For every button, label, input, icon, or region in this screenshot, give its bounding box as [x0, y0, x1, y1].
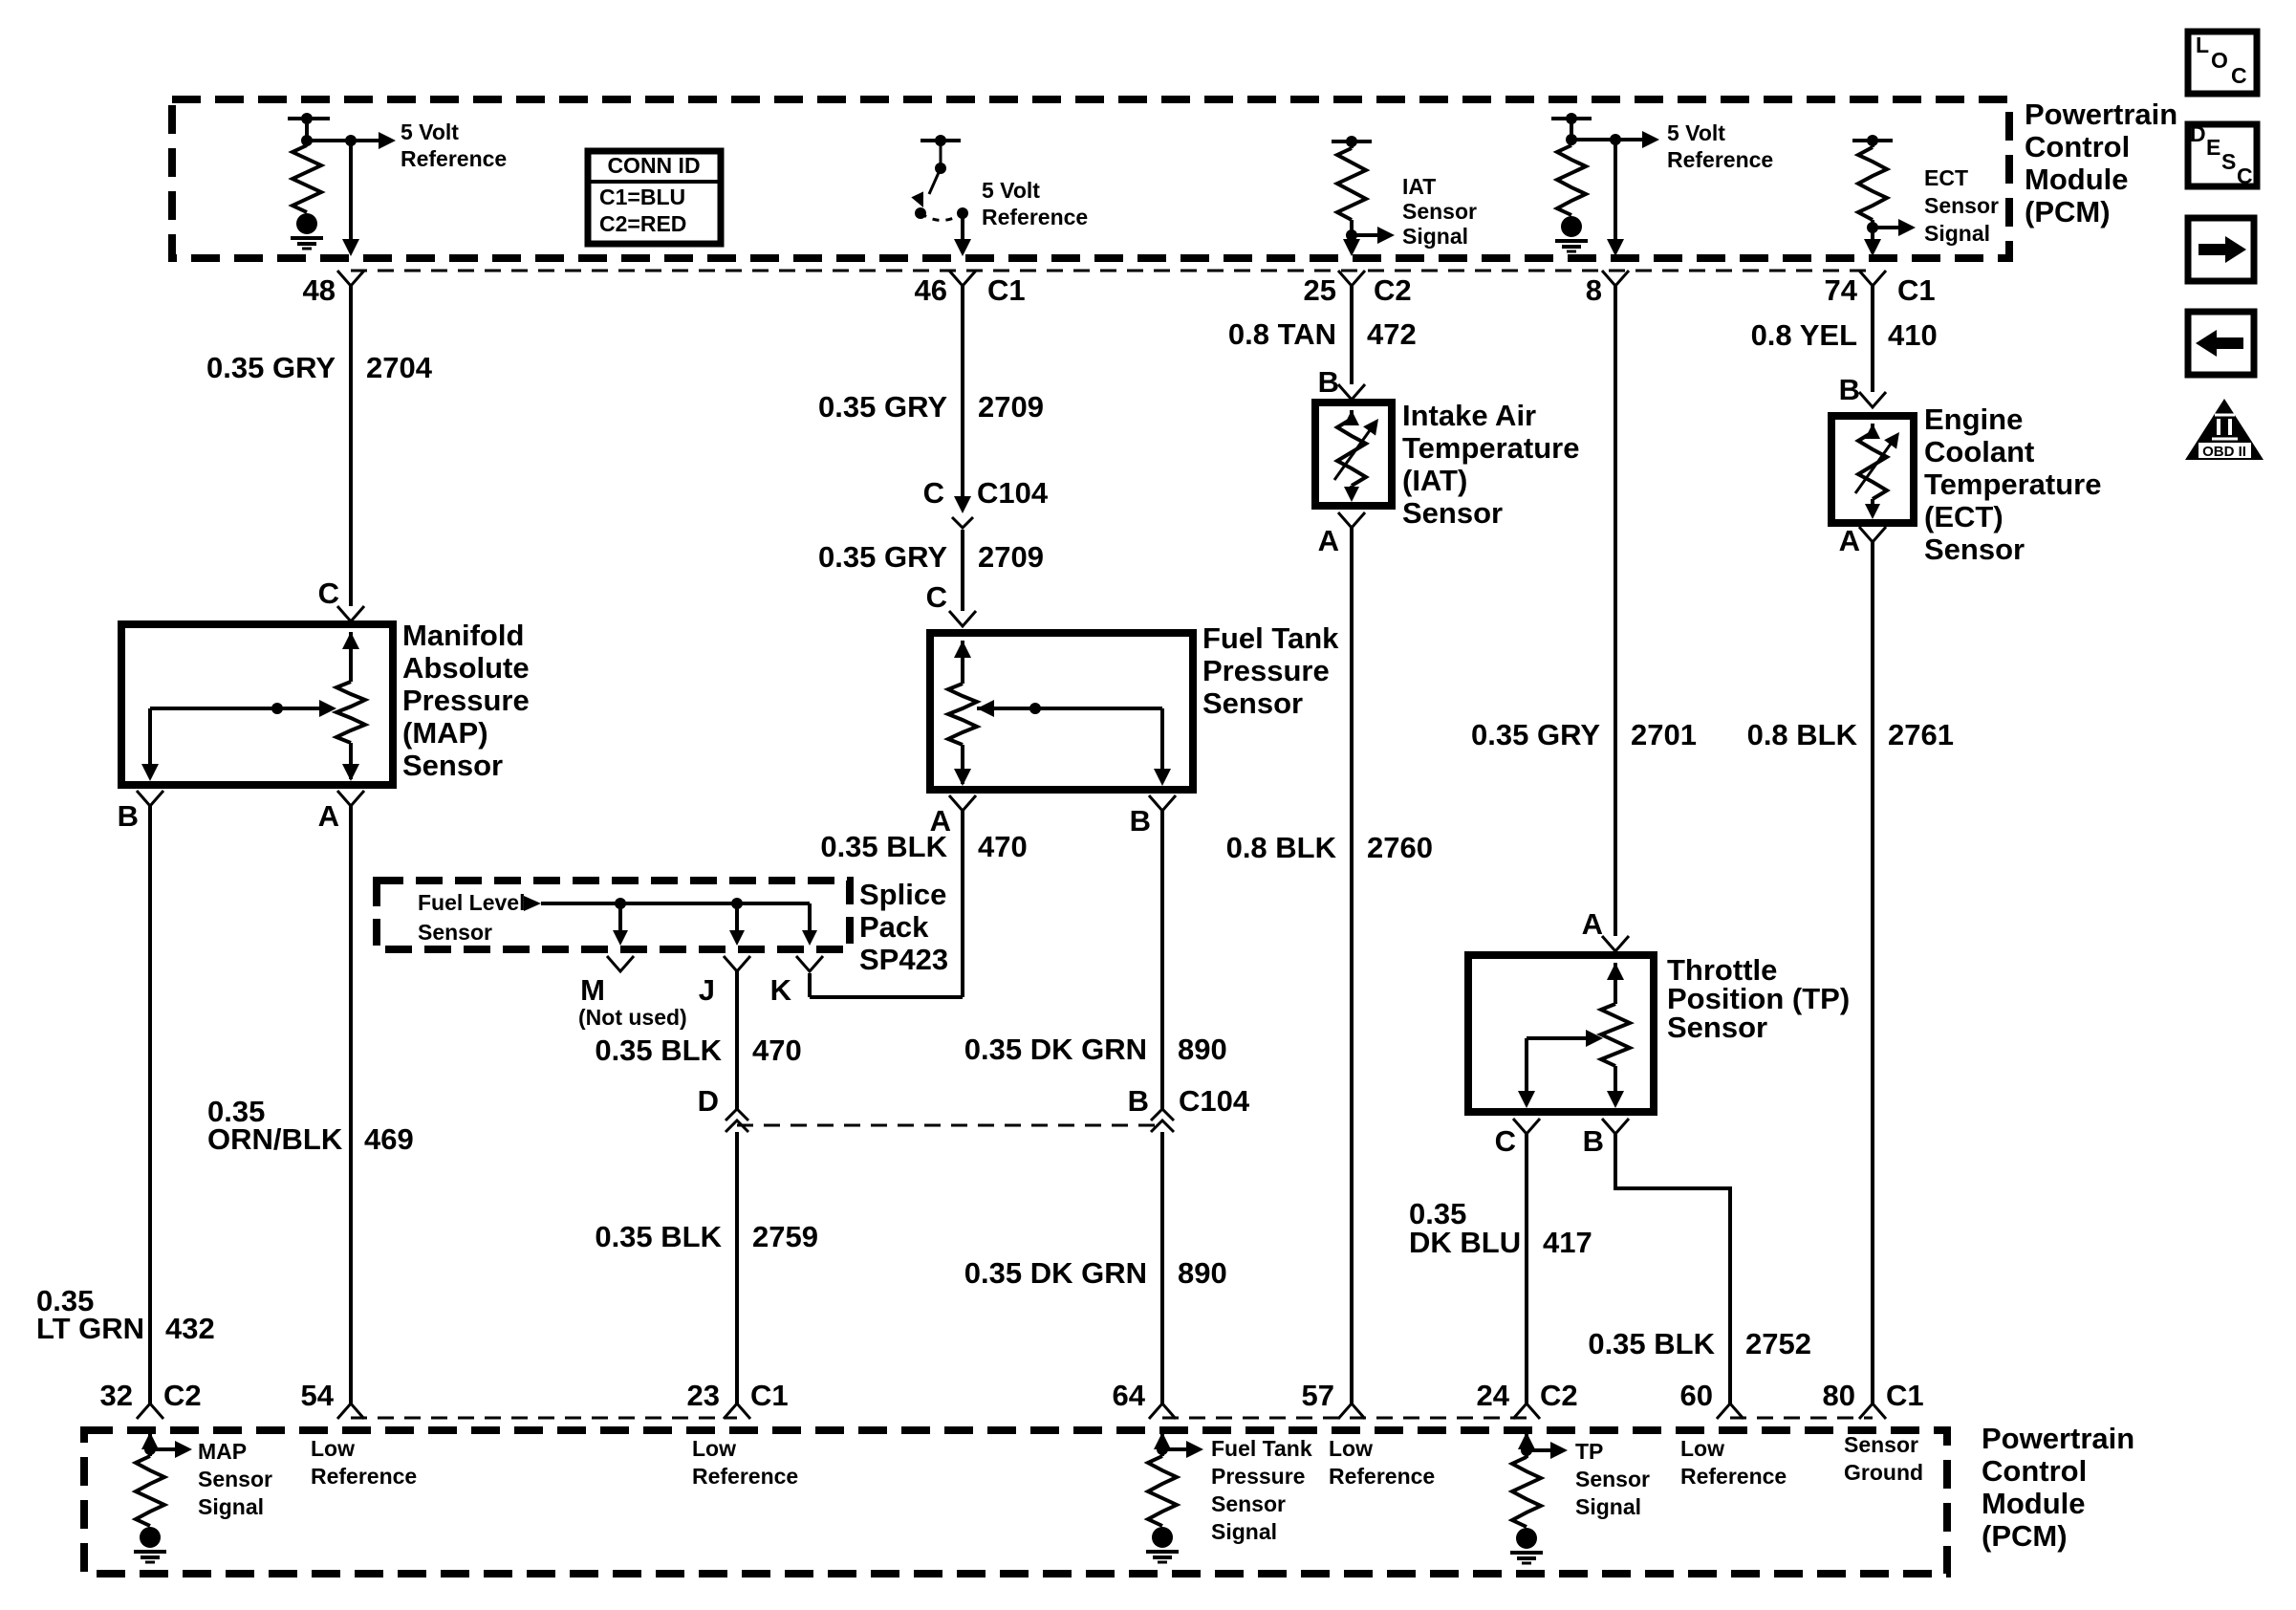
svg-text:(IAT): (IAT)	[1402, 464, 1467, 497]
svg-text:Sensor: Sensor	[1844, 1432, 1918, 1457]
svg-text:Intake Air: Intake Air	[1402, 399, 1536, 432]
svg-text:23: 23	[687, 1379, 720, 1412]
wire 8 drop inside PCM	[1607, 140, 1624, 256]
Fuel Level Sensor feed arrow	[524, 896, 810, 911]
svg-text:2752: 2752	[1745, 1327, 1811, 1360]
label Low Reference (57)	[1329, 1436, 1435, 1489]
svg-text:8: 8	[1586, 273, 1602, 307]
label 0.35 BLK 470 (J)	[595, 1033, 801, 1067]
connector C C104	[923, 476, 1049, 528]
wire ECT A to pin 80	[1871, 542, 1874, 1403]
svg-text:5 Volt: 5 Volt	[982, 178, 1040, 203]
svg-text:0.8 TAN: 0.8 TAN	[1228, 317, 1336, 351]
OBD II icon	[2185, 399, 2264, 460]
svg-text:E: E	[2206, 135, 2220, 160]
wire 48 to MAP sensor C	[349, 286, 353, 606]
svg-text:80: 80	[1823, 1379, 1855, 1412]
svg-text:Fuel Tank: Fuel Tank	[1202, 621, 1339, 655]
pin 60	[1680, 1379, 1744, 1419]
label 0.35 BLK 470 (FTP A)	[820, 830, 1027, 863]
svg-text:2761: 2761	[1888, 718, 1954, 751]
pin 80 C1	[1823, 1379, 1924, 1419]
pin 8	[1586, 271, 1629, 307]
label 0.8 TAN 472	[1228, 317, 1417, 351]
svg-text:5 Volt: 5 Volt	[401, 120, 459, 144]
svg-text:48: 48	[303, 273, 336, 307]
label 5 Volt Reference (MAP)	[401, 120, 507, 171]
svg-text:A: A	[1318, 524, 1339, 557]
svg-text:B: B	[1318, 365, 1339, 399]
pin B of MAP	[118, 791, 163, 833]
pin 32 C2	[100, 1379, 202, 1419]
svg-text:46: 46	[915, 273, 947, 307]
svg-text:MAP: MAP	[198, 1439, 247, 1464]
svg-text:Low: Low	[1329, 1436, 1373, 1461]
svg-text:A: A	[318, 799, 339, 833]
svg-text:Signal: Signal	[1211, 1519, 1277, 1544]
ECT sensor label	[1924, 402, 2102, 566]
label 0.35 GRY 2701	[1471, 718, 1697, 751]
label 5 Volt Reference (switch)	[982, 178, 1088, 229]
pin C of TP	[1495, 1119, 1540, 1158]
svg-text:Control: Control	[1982, 1454, 2087, 1488]
potentiometer (TP)	[1601, 963, 1630, 1108]
connector D C104	[698, 1084, 748, 1132]
svg-text:470: 470	[978, 830, 1028, 863]
svg-text:C1: C1	[1897, 273, 1936, 307]
svg-text:K: K	[770, 973, 792, 1007]
wire 46 drop inside PCM	[954, 213, 971, 256]
forward arrow icon	[2188, 218, 2254, 281]
wire C104 to pin 64	[1160, 1132, 1164, 1403]
label TP Sensor Signal	[1575, 1439, 1650, 1519]
svg-text:TP: TP	[1575, 1439, 1603, 1464]
svg-text:M: M	[580, 973, 605, 1007]
CONN ID legend box	[588, 151, 721, 244]
svg-text:DK BLU: DK BLU	[1409, 1226, 1521, 1259]
svg-text:Signal: Signal	[1924, 221, 1990, 246]
switch (5 Volt Reference, pin 46)	[911, 135, 968, 221]
label 0.35 GRY 2704	[206, 351, 433, 384]
svg-text:Reference: Reference	[982, 205, 1088, 229]
svg-text:890: 890	[1178, 1256, 1227, 1290]
svg-text:Signal: Signal	[1575, 1494, 1641, 1519]
resistor (MAP 5 Volt Reference pull-up)	[288, 113, 330, 249]
svg-text:Powertrain: Powertrain	[2025, 98, 2177, 131]
svg-text:Fuel Tank: Fuel Tank	[1211, 1436, 1312, 1461]
svg-text:C: C	[926, 580, 947, 614]
pin A of TP	[1582, 907, 1629, 951]
svg-text:C: C	[923, 476, 944, 510]
pin 54	[301, 1379, 364, 1419]
resistor (Fuel Tank Pressure Sensor Signal)	[1146, 1432, 1179, 1562]
svg-text:ECT: ECT	[1924, 165, 1968, 190]
svg-text:Coolant: Coolant	[1924, 435, 2034, 468]
svg-text:C104: C104	[1179, 1084, 1250, 1118]
IAT sensor label	[1402, 399, 1580, 530]
svg-text:Manifold: Manifold	[402, 619, 524, 652]
svg-text:Signal: Signal	[1402, 224, 1468, 249]
svg-text:Low: Low	[1680, 1436, 1724, 1461]
wire IAT A to pin 57	[1350, 528, 1354, 1403]
wire C104 to FTP C	[961, 530, 964, 611]
svg-text:D: D	[698, 1084, 719, 1118]
svg-text:C104: C104	[977, 476, 1049, 510]
LOC icon	[2188, 32, 2257, 94]
svg-text:A: A	[1839, 524, 1860, 557]
label 0.35 DK BLU 417	[1409, 1197, 1592, 1259]
svg-text:L: L	[2196, 33, 2209, 57]
svg-text:Pressure: Pressure	[1211, 1464, 1305, 1489]
svg-text:Reference: Reference	[692, 1464, 798, 1489]
svg-text:470: 470	[752, 1033, 802, 1067]
connector C at FTP	[926, 580, 976, 626]
svg-text:0.8 BLK: 0.8 BLK	[1226, 831, 1337, 864]
wire 46 to C104	[954, 286, 971, 513]
svg-text:J: J	[699, 973, 715, 1007]
connector K	[770, 956, 823, 1007]
svg-text:Module: Module	[2025, 163, 2129, 196]
svg-text:Temperature: Temperature	[1402, 431, 1580, 465]
svg-text:Sensor: Sensor	[1402, 496, 1503, 530]
svg-text:0.8 BLK: 0.8 BLK	[1747, 718, 1858, 751]
svg-text:0.35 BLK: 0.35 BLK	[1588, 1327, 1715, 1360]
svg-text:Fuel Level: Fuel Level	[418, 890, 525, 915]
svg-text:0.35 GRY: 0.35 GRY	[1471, 718, 1600, 751]
svg-text:Reference: Reference	[401, 146, 507, 171]
svg-text:417: 417	[1543, 1226, 1592, 1259]
svg-text:CONN ID: CONN ID	[607, 153, 700, 178]
MAP sensor label	[402, 619, 530, 782]
svg-text:Sensor: Sensor	[1575, 1467, 1650, 1491]
wiper arrow (FTP)	[977, 700, 1171, 786]
wire D to pin 23	[735, 1132, 739, 1403]
svg-text:Sensor: Sensor	[1924, 533, 2025, 566]
svg-text:2709: 2709	[978, 540, 1044, 574]
PCM module box (top)	[172, 99, 2009, 258]
bottom connector line segment 1	[351, 1417, 737, 1420]
svg-text:Absolute: Absolute	[402, 651, 530, 685]
wire 25 drop inside PCM	[1343, 235, 1360, 256]
Fuel Tank Pressure sensor box	[930, 633, 1193, 790]
label Low Reference (54)	[311, 1436, 417, 1489]
label 0.8 BLK 2760	[1226, 831, 1433, 864]
splice junction M	[613, 898, 628, 946]
svg-text:0.35 BLK: 0.35 BLK	[820, 830, 947, 863]
Fuel Tank Pressure sensor label	[1202, 621, 1339, 720]
svg-text:Powertrain: Powertrain	[1982, 1422, 2134, 1455]
svg-text:Module: Module	[1982, 1487, 2086, 1520]
svg-text:60: 60	[1680, 1379, 1713, 1412]
pin 24 C2	[1477, 1379, 1578, 1419]
label 0.35 BLK 2752	[1588, 1327, 1811, 1360]
svg-text:2701: 2701	[1631, 718, 1697, 751]
svg-text:Low: Low	[692, 1436, 736, 1461]
wiper arrow (MAP)	[141, 700, 336, 781]
svg-text:D: D	[2190, 121, 2206, 146]
pin 46 C1	[915, 271, 1026, 307]
svg-text:(ECT): (ECT)	[1924, 500, 2004, 533]
arrow MAP sensor signal	[150, 1441, 192, 1458]
svg-text:432: 432	[165, 1312, 215, 1345]
svg-text:B: B	[1128, 1084, 1149, 1118]
svg-text:OBD II: OBD II	[2202, 444, 2246, 460]
svg-text:LT GRN: LT GRN	[36, 1312, 144, 1345]
pin B of ECT	[1839, 373, 1886, 407]
svg-text:0.35 DK GRN: 0.35 DK GRN	[964, 1033, 1147, 1066]
label 0.8 BLK 2761	[1747, 718, 1954, 751]
svg-text:Splice: Splice	[859, 878, 946, 911]
pin 64	[1113, 1379, 1176, 1419]
svg-text:C: C	[2237, 163, 2253, 188]
svg-text:Sensor: Sensor	[1667, 1011, 1767, 1044]
svg-text:A: A	[1582, 907, 1603, 941]
svg-text:C1: C1	[1886, 1379, 1924, 1412]
svg-text:469: 469	[364, 1122, 414, 1156]
pin 57	[1302, 1379, 1365, 1419]
back arrow icon	[2188, 312, 2254, 375]
svg-text:Sensor: Sensor	[1924, 193, 1999, 218]
svg-text:0.35 DK GRN: 0.35 DK GRN	[964, 1256, 1147, 1290]
pin 25 C2	[1304, 271, 1412, 307]
label 0.8 YEL 410	[1751, 318, 1938, 352]
svg-text:Sensor: Sensor	[1402, 199, 1477, 224]
svg-text:0.35 GRY: 0.35 GRY	[206, 351, 336, 384]
svg-text:C: C	[318, 577, 339, 610]
svg-text:(PCM): (PCM)	[2025, 195, 2111, 228]
PCM label (bottom right)	[1982, 1422, 2134, 1553]
splice junction J	[729, 898, 745, 946]
svg-text:64: 64	[1113, 1379, 1146, 1412]
wire 8 to TP A	[1614, 286, 1617, 936]
Splice Pack SP423 box	[377, 881, 850, 949]
svg-text:B: B	[1583, 1124, 1604, 1158]
svg-text:24: 24	[1477, 1379, 1510, 1412]
pin A of FTP	[930, 795, 976, 838]
svg-text:2759: 2759	[752, 1220, 818, 1253]
svg-text:(Not used): (Not used)	[578, 1005, 687, 1030]
label 0.35 DK GRN 890 (lower)	[964, 1256, 1227, 1290]
pin A of IAT	[1318, 512, 1365, 557]
wire 74 to ECT B	[1871, 286, 1874, 392]
bottom connector line segment 2	[1162, 1417, 1527, 1420]
pin A of MAP	[318, 791, 364, 833]
svg-text:IAT: IAT	[1402, 174, 1436, 199]
svg-text:57: 57	[1302, 1379, 1334, 1412]
svg-text:C1: C1	[987, 273, 1026, 307]
wire TP C to pin 24	[1525, 1134, 1528, 1403]
label 0.35 ORN/BLK 469	[207, 1095, 414, 1156]
svg-text:Signal: Signal	[198, 1494, 264, 1519]
svg-text:472: 472	[1367, 317, 1417, 351]
svg-text:Sensor: Sensor	[1202, 686, 1303, 720]
svg-text:B: B	[1130, 804, 1151, 838]
thermistor (ECT)	[1855, 424, 1899, 519]
pin 48	[303, 271, 364, 307]
label Low Reference (60)	[1680, 1436, 1787, 1489]
svg-text:Reference: Reference	[1680, 1464, 1787, 1489]
wire MAP B to pin 32 (MAP signal)	[148, 806, 152, 1403]
label 0.35 GRY 2709 (upper)	[818, 390, 1044, 424]
potentiometer (MAP)	[336, 632, 365, 781]
svg-text:5 Volt: 5 Volt	[1667, 120, 1725, 145]
svg-text:2709: 2709	[978, 390, 1044, 424]
svg-text:B: B	[118, 799, 139, 833]
svg-text:Pack: Pack	[859, 910, 929, 944]
svg-text:Reference: Reference	[311, 1464, 417, 1489]
svg-text:Sensor: Sensor	[418, 920, 492, 945]
pin B of IAT	[1318, 365, 1365, 400]
wire 74 drop inside PCM	[1864, 228, 1881, 256]
label Low Reference (23)	[692, 1436, 798, 1489]
svg-text:Temperature: Temperature	[1924, 468, 2102, 501]
svg-text:0.35 GRY: 0.35 GRY	[818, 390, 947, 424]
svg-text:(PCM): (PCM)	[1982, 1519, 2068, 1553]
svg-text:Sensor: Sensor	[1211, 1491, 1286, 1516]
svg-text:B: B	[1839, 373, 1860, 406]
MAP sensor box	[121, 624, 393, 785]
label MAP Sensor Signal	[198, 1439, 272, 1519]
thermistor (IAT)	[1334, 410, 1378, 502]
svg-text:C2: C2	[1540, 1379, 1578, 1412]
label Sensor Ground (80)	[1844, 1432, 1923, 1485]
svg-text:0.35 GRY: 0.35 GRY	[818, 540, 947, 574]
svg-text:Low: Low	[311, 1436, 355, 1461]
svg-text:Sensor: Sensor	[198, 1467, 272, 1491]
wire MAP A to pin 54 (low reference)	[349, 806, 353, 1403]
label Fuel Tank Pressure Sensor Signal	[1211, 1436, 1312, 1544]
svg-text:C2: C2	[1374, 273, 1412, 307]
svg-text:410: 410	[1888, 318, 1938, 352]
wire (pull-up to 5V ref arrow, TP)	[1571, 131, 1659, 148]
svg-text:0.35 BLK: 0.35 BLK	[595, 1033, 722, 1067]
svg-text:C2: C2	[163, 1379, 202, 1412]
pin A of ECT	[1839, 524, 1886, 557]
resistor (TP 5 Volt Reference pull-up)	[1551, 113, 1592, 251]
connector J	[699, 956, 750, 1007]
DESC icon	[2188, 121, 2257, 188]
svg-text:890: 890	[1178, 1033, 1227, 1066]
arrow FTP sensor signal	[1162, 1441, 1203, 1458]
wire TP B to pin 60	[1615, 1134, 1730, 1403]
svg-text:Pressure: Pressure	[1202, 654, 1330, 687]
svg-text:C1: C1	[750, 1379, 789, 1412]
svg-text:(MAP): (MAP)	[402, 716, 488, 750]
wiper arrow (TP)	[1518, 1030, 1603, 1108]
label 5 Volt Reference (TP)	[1667, 120, 1773, 172]
svg-text:Ground: Ground	[1844, 1460, 1923, 1485]
C104 connector line (middle)	[737, 1124, 1162, 1127]
pin B of TP	[1583, 1119, 1629, 1158]
wire (ECT signal arrow)	[1873, 219, 1916, 236]
label 0.35 GRY 2709 (lower)	[818, 540, 1044, 574]
svg-text:2760: 2760	[1367, 831, 1433, 864]
connector C at MAP	[318, 577, 364, 621]
resistor (IAT Sensor Signal)	[1332, 136, 1372, 241]
svg-text:Reference: Reference	[1329, 1464, 1435, 1489]
svg-text:C: C	[1495, 1124, 1516, 1158]
Fuel Level Sensor label	[418, 890, 525, 945]
svg-text:SP423: SP423	[859, 943, 948, 976]
label ECT Sensor Signal	[1924, 165, 1999, 246]
connector B C104	[1128, 1084, 1250, 1132]
svg-text:Reference: Reference	[1667, 147, 1773, 172]
wire 48 drop inside PCM	[342, 141, 359, 256]
label 0.35 BLK 2759	[595, 1220, 818, 1253]
svg-text:S: S	[2221, 149, 2236, 174]
PCM label (top right)	[2025, 98, 2177, 228]
label IAT Sensor Signal	[1402, 174, 1477, 249]
PCM module box (bottom)	[84, 1430, 1947, 1574]
svg-text:C2=RED: C2=RED	[599, 211, 686, 236]
connector M	[580, 956, 634, 1007]
svg-text:54: 54	[301, 1379, 335, 1412]
Splice Pack label	[859, 878, 948, 976]
TP sensor box	[1468, 955, 1654, 1112]
svg-text:C: C	[2231, 63, 2247, 88]
splice drop K	[802, 903, 817, 946]
label 0.35 DK GRN 890 (upper)	[964, 1033, 1227, 1066]
svg-text:0.35 BLK: 0.35 BLK	[595, 1220, 722, 1253]
svg-text:Pressure: Pressure	[402, 684, 530, 717]
svg-text:C1=BLU: C1=BLU	[599, 185, 685, 209]
svg-text:Sensor: Sensor	[402, 749, 503, 782]
resistor (MAP Sensor Signal)	[134, 1432, 166, 1562]
TP sensor label	[1667, 953, 1850, 1044]
wire splice J to D C104	[735, 971, 739, 1109]
svg-text:O: O	[2211, 48, 2228, 73]
wire FTP A to splice K	[810, 811, 963, 997]
IAT sensor box	[1315, 402, 1392, 506]
label 0.35 LT GRN 432	[36, 1284, 215, 1345]
pin 23 C1	[687, 1379, 789, 1419]
ECT sensor box	[1831, 416, 1914, 523]
pin 74 C1	[1825, 271, 1936, 307]
svg-text:Control: Control	[2025, 130, 2130, 163]
pin B of FTP	[1130, 795, 1176, 838]
PCM connector C1/C2 line (top)	[351, 270, 1873, 272]
svg-text:74: 74	[1825, 273, 1858, 307]
arrow TP sensor signal	[1527, 1442, 1568, 1459]
svg-text:2704: 2704	[366, 351, 433, 384]
wire (IAT signal arrow)	[1352, 227, 1395, 244]
resistor (ECT Sensor Signal)	[1852, 135, 1893, 233]
bottom connector line segment 3	[1730, 1417, 1873, 1420]
svg-text:0.8 YEL: 0.8 YEL	[1751, 318, 1857, 352]
wire 25 to IAT B	[1350, 286, 1354, 384]
svg-text:25: 25	[1304, 273, 1336, 307]
svg-text:ORN/BLK: ORN/BLK	[207, 1122, 343, 1156]
svg-text:32: 32	[100, 1379, 133, 1412]
potentiometer (FTP)	[948, 641, 977, 786]
resistor (TP Sensor Signal)	[1510, 1432, 1543, 1563]
wire FTP B to C104	[1160, 811, 1164, 1109]
svg-text:Engine: Engine	[1924, 402, 2023, 436]
wire (pull-up to 5V ref arrow)	[307, 132, 396, 149]
label not used	[578, 1005, 687, 1030]
